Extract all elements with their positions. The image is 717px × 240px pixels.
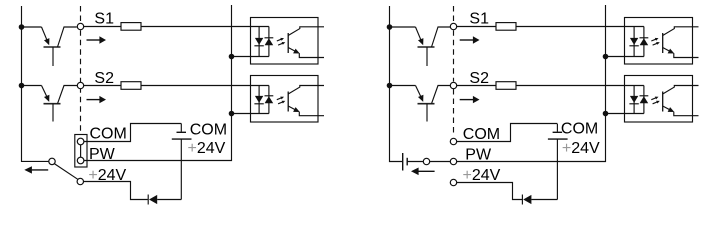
wire: left supply bus (vertical) with bottom corner to external battery bbox=[390, 6, 403, 162]
terminal +24V (open circle) bbox=[77, 178, 83, 184]
terminal S1 (open circle) bbox=[450, 23, 456, 29]
label +24V (internal supply) bbox=[188, 140, 226, 157]
svg-text:COM: COM bbox=[561, 121, 598, 138]
node: junction dot on return bus (O4 LED return) bbox=[603, 111, 609, 117]
optocoupler O1: phototransistor collector to output pin bbox=[288, 27, 324, 36]
optocoupler O1: phototransistor base bar bbox=[287, 33, 289, 53]
internal 24V supply: stub and COM (short) plate bbox=[553, 124, 563, 133]
node: junction dot on return bus (O1 LED return) bbox=[229, 54, 235, 60]
label S2 bbox=[94, 70, 114, 87]
transistor Q3: collector-out diagonal to S1 terminal bbox=[432, 27, 451, 47]
diode D5 (reverse protection, cathode bar left) bbox=[148, 195, 157, 205]
wire: S2 terminal to resistor bbox=[84, 85, 121, 87]
wire: COM terminal to internal 24V supply negative bbox=[84, 124, 181, 142]
svg-text:S1: S1 bbox=[94, 11, 114, 28]
optocoupler O4: LED D8 (anode up) bbox=[629, 96, 638, 104]
svg-text:+24V: +24V bbox=[463, 167, 501, 184]
optocoupler O2: LED rails bbox=[259, 86, 269, 114]
optocoupler O1: light arrows bbox=[277, 38, 286, 45]
wire: +24V terminal to diode bbox=[457, 183, 522, 200]
current-direction arrow at S1 bbox=[87, 36, 107, 43]
transistor Q3 (internal, S1 row): collector wire bbox=[390, 26, 416, 28]
svg-text:+24V: +24V bbox=[562, 140, 600, 157]
optocoupler O4: LED D9 (anode down, anti-parallel) bbox=[640, 96, 649, 104]
wire: optocoupler return bus (vertical) down to PW wire bbox=[84, 5, 231, 161]
terminal S2 (open circle) bbox=[77, 82, 83, 88]
terminal S2 (open circle) bbox=[450, 82, 456, 88]
label +24V bbox=[463, 167, 501, 184]
transistor Q3: base stub downward bbox=[426, 47, 428, 66]
optocoupler O1 box bbox=[251, 18, 319, 65]
transistor Q3: base bar bbox=[418, 46, 435, 48]
wire: S2 terminal to resistor bbox=[457, 85, 496, 87]
external battery: negative (long) plate bbox=[402, 153, 404, 171]
wire: left supply bus (vertical) with bottom corner to switch bbox=[22, 6, 49, 161]
transistor Q1: base bar bbox=[44, 46, 61, 48]
transistor Q1 (internal, S1 row): collector wire bbox=[22, 26, 42, 28]
transistor Q2: emitter diagonal with arrow into base bar bbox=[42, 86, 50, 102]
wire: O3 LED return to bus bbox=[606, 56, 644, 58]
optocoupler O2: phototransistor base bar bbox=[287, 92, 289, 112]
node: junction dot on return bus (O2 LED return) bbox=[229, 111, 235, 117]
svg-text:PW: PW bbox=[465, 146, 492, 163]
svg-text:+24V: +24V bbox=[188, 140, 226, 157]
optocoupler O3: LED D7 (anode down, anti-parallel) bbox=[640, 38, 649, 46]
wire: resistor to optocoupler O4 LED bbox=[516, 85, 644, 87]
wire: battery to mid terminal bbox=[407, 161, 423, 163]
internal 24V supply: stub and COM (short) plate bbox=[177, 124, 187, 133]
wire: S1 terminal to resistor bbox=[457, 26, 496, 28]
terminal COM (open circle) bbox=[450, 138, 456, 144]
label S2 bbox=[469, 70, 489, 87]
wire: O1 LED return to bus bbox=[232, 56, 269, 58]
optocoupler O2: light arrows bbox=[277, 97, 286, 104]
optocoupler O4: phototransistor emitter with arrow to output pin bbox=[663, 106, 699, 116]
optocoupler O3: phototransistor collector to output pin bbox=[663, 27, 699, 36]
transistor Q2: collector-out diagonal to S2 terminal bbox=[58, 86, 78, 104]
transistor Q2: base stub downward bbox=[52, 104, 54, 122]
wire: jumper link COM-PW bbox=[80, 145, 82, 157]
optocoupler O2: phototransistor emitter with arrow to output pin bbox=[288, 106, 324, 116]
terminal COM (open circle) bbox=[77, 138, 84, 145]
wire: optocoupler return bus (vertical) down to PW wire bbox=[457, 5, 606, 162]
wire: mid terminal to PW terminal bbox=[430, 161, 451, 163]
svg-text:COM: COM bbox=[190, 121, 227, 138]
optocoupler O2 box bbox=[251, 76, 319, 123]
optocoupler O3: LED D6 (anode up) bbox=[629, 38, 638, 46]
optocoupler O1: phototransistor emitter with arrow to output pin bbox=[288, 48, 324, 58]
wire: internal supply positive down to diode return bbox=[556, 139, 558, 199]
svg-text:COM: COM bbox=[463, 126, 500, 143]
wire: COM terminal to internal 24V supply negative bbox=[457, 124, 558, 142]
wire: resistor to optocoupler O3 LED bbox=[516, 26, 644, 28]
node: junction dot on return bus (O3 LED return) bbox=[603, 54, 609, 60]
optocoupler O2: phototransistor collector to output pin bbox=[288, 86, 324, 95]
internal 24V supply: +24V (long) plate bbox=[548, 138, 568, 140]
switch pole contact (open circle) bbox=[423, 158, 429, 164]
wire: S1 terminal to resistor bbox=[84, 26, 121, 28]
optocoupler O4 box bbox=[625, 76, 693, 123]
label COM (internal supply) bbox=[190, 121, 227, 138]
external battery: positive (short) plate bbox=[406, 158, 408, 166]
label S1 bbox=[469, 11, 489, 28]
jumper block enclosing COM and PW terminals bbox=[75, 135, 87, 168]
svg-text:S1: S1 bbox=[469, 11, 489, 28]
transistor Q1: base stub downward bbox=[52, 47, 54, 66]
current-direction arrow (left, toward battery) bbox=[411, 168, 435, 176]
optocoupler O4: LED rails bbox=[634, 86, 644, 114]
optocoupler O3: phototransistor emitter with arrow to output pin bbox=[663, 48, 699, 58]
transistor Q2: base bar bbox=[44, 103, 61, 105]
optocoupler O3: phototransistor base bar bbox=[662, 33, 664, 53]
optocoupler O2: LED D3 (anode up) bbox=[254, 96, 263, 104]
svg-text:PW: PW bbox=[89, 146, 116, 163]
transistor Q4 (internal, S2 row): collector wire bbox=[390, 85, 416, 87]
current-direction arrow at S2 bbox=[87, 96, 107, 103]
terminal +24V (open circle) bbox=[450, 179, 456, 185]
label +24V (internal supply) bbox=[562, 140, 600, 157]
label PW bbox=[89, 146, 116, 163]
label S1 bbox=[94, 11, 114, 28]
label COM bbox=[463, 126, 500, 143]
transistor Q4: emitter diagonal with arrow into base bar bbox=[416, 86, 424, 102]
node: junction dot on left bus at S1 row bbox=[19, 24, 25, 30]
optocoupler O4: light arrows bbox=[651, 97, 660, 104]
transistor Q1: emitter diagonal with arrow into base bar bbox=[42, 27, 50, 45]
terminal S1 (open circle) bbox=[77, 23, 83, 29]
node: junction dot on left bus at S1 row bbox=[387, 24, 393, 30]
wire: +24V terminal to diode bbox=[83, 182, 148, 200]
svg-text:S2: S2 bbox=[469, 70, 489, 87]
node: junction dot on left bus at S2 row bbox=[387, 83, 393, 89]
switch blade to +24V terminal bbox=[54, 164, 77, 180]
transistor Q4: base bar bbox=[418, 103, 435, 105]
wire: diode to internal supply positive bbox=[157, 199, 181, 201]
optocoupler O1: LED D2 (anode down, anti-parallel) bbox=[265, 38, 274, 46]
transistor Q2 (internal, S2 row): collector wire bbox=[22, 85, 42, 87]
wire: internal supply positive down to diode return bbox=[180, 139, 182, 199]
dashed terminal-strip boundary line (right panel) bbox=[453, 6, 455, 137]
label +24V bbox=[88, 167, 126, 184]
wire: O4 LED return to bus bbox=[606, 113, 644, 115]
label COM (internal supply) bbox=[561, 121, 598, 138]
optocoupler O3 box bbox=[625, 18, 693, 65]
optocoupler O4: phototransistor base bar bbox=[662, 92, 664, 112]
wire: resistor to optocoupler O2 LED bbox=[141, 85, 269, 87]
transistor Q1: collector-out diagonal to S1 terminal bbox=[58, 27, 77, 47]
terminal PW (open circle) bbox=[450, 158, 456, 164]
transistor Q4: base stub downward bbox=[426, 104, 428, 122]
wire: O2 LED return to bus bbox=[232, 113, 269, 115]
resistor (S2 input, current limiting) bbox=[121, 82, 141, 90]
optocoupler O2: LED D4 (anode down, anti-parallel) bbox=[265, 96, 274, 104]
node: junction dot on left bus at S2 row bbox=[19, 83, 25, 89]
current-direction arrow at S1 bbox=[460, 36, 480, 43]
optocoupler O3: light arrows bbox=[651, 38, 660, 45]
label PW bbox=[465, 146, 492, 163]
switch pole contact (open circle) bbox=[49, 158, 55, 164]
svg-text:COM: COM bbox=[90, 126, 127, 143]
diode D10 (reverse protection, cathode bar left) bbox=[522, 195, 531, 205]
svg-text:S2: S2 bbox=[94, 70, 114, 87]
optocoupler O1: LED rails bbox=[259, 27, 269, 57]
wire: diode to internal supply positive bbox=[531, 199, 557, 201]
resistor (S1 input, current limiting) bbox=[496, 23, 516, 31]
transistor Q3: emitter diagonal with arrow into base bar bbox=[416, 27, 424, 45]
current-direction arrow at S2 bbox=[460, 96, 480, 103]
resistor (S2 input, current limiting) bbox=[496, 82, 516, 90]
current-direction arrow (left, toward bus) bbox=[24, 166, 48, 173]
optocoupler O3: LED rails bbox=[634, 27, 644, 57]
optocoupler O4: phototransistor collector to output pin bbox=[663, 86, 699, 95]
internal 24V supply: +24V (long) plate bbox=[172, 138, 192, 140]
wire: resistor to optocoupler O1 LED bbox=[141, 26, 269, 28]
optocoupler O1: LED D1 (anode up) bbox=[254, 38, 263, 46]
resistor (S1 input, current limiting) bbox=[121, 23, 141, 31]
dashed terminal-strip boundary line (left panel) bbox=[80, 6, 82, 134]
terminal PW (open circle) bbox=[77, 157, 84, 164]
label COM bbox=[90, 126, 127, 143]
transistor Q4: collector-out diagonal to S2 terminal bbox=[432, 86, 451, 104]
